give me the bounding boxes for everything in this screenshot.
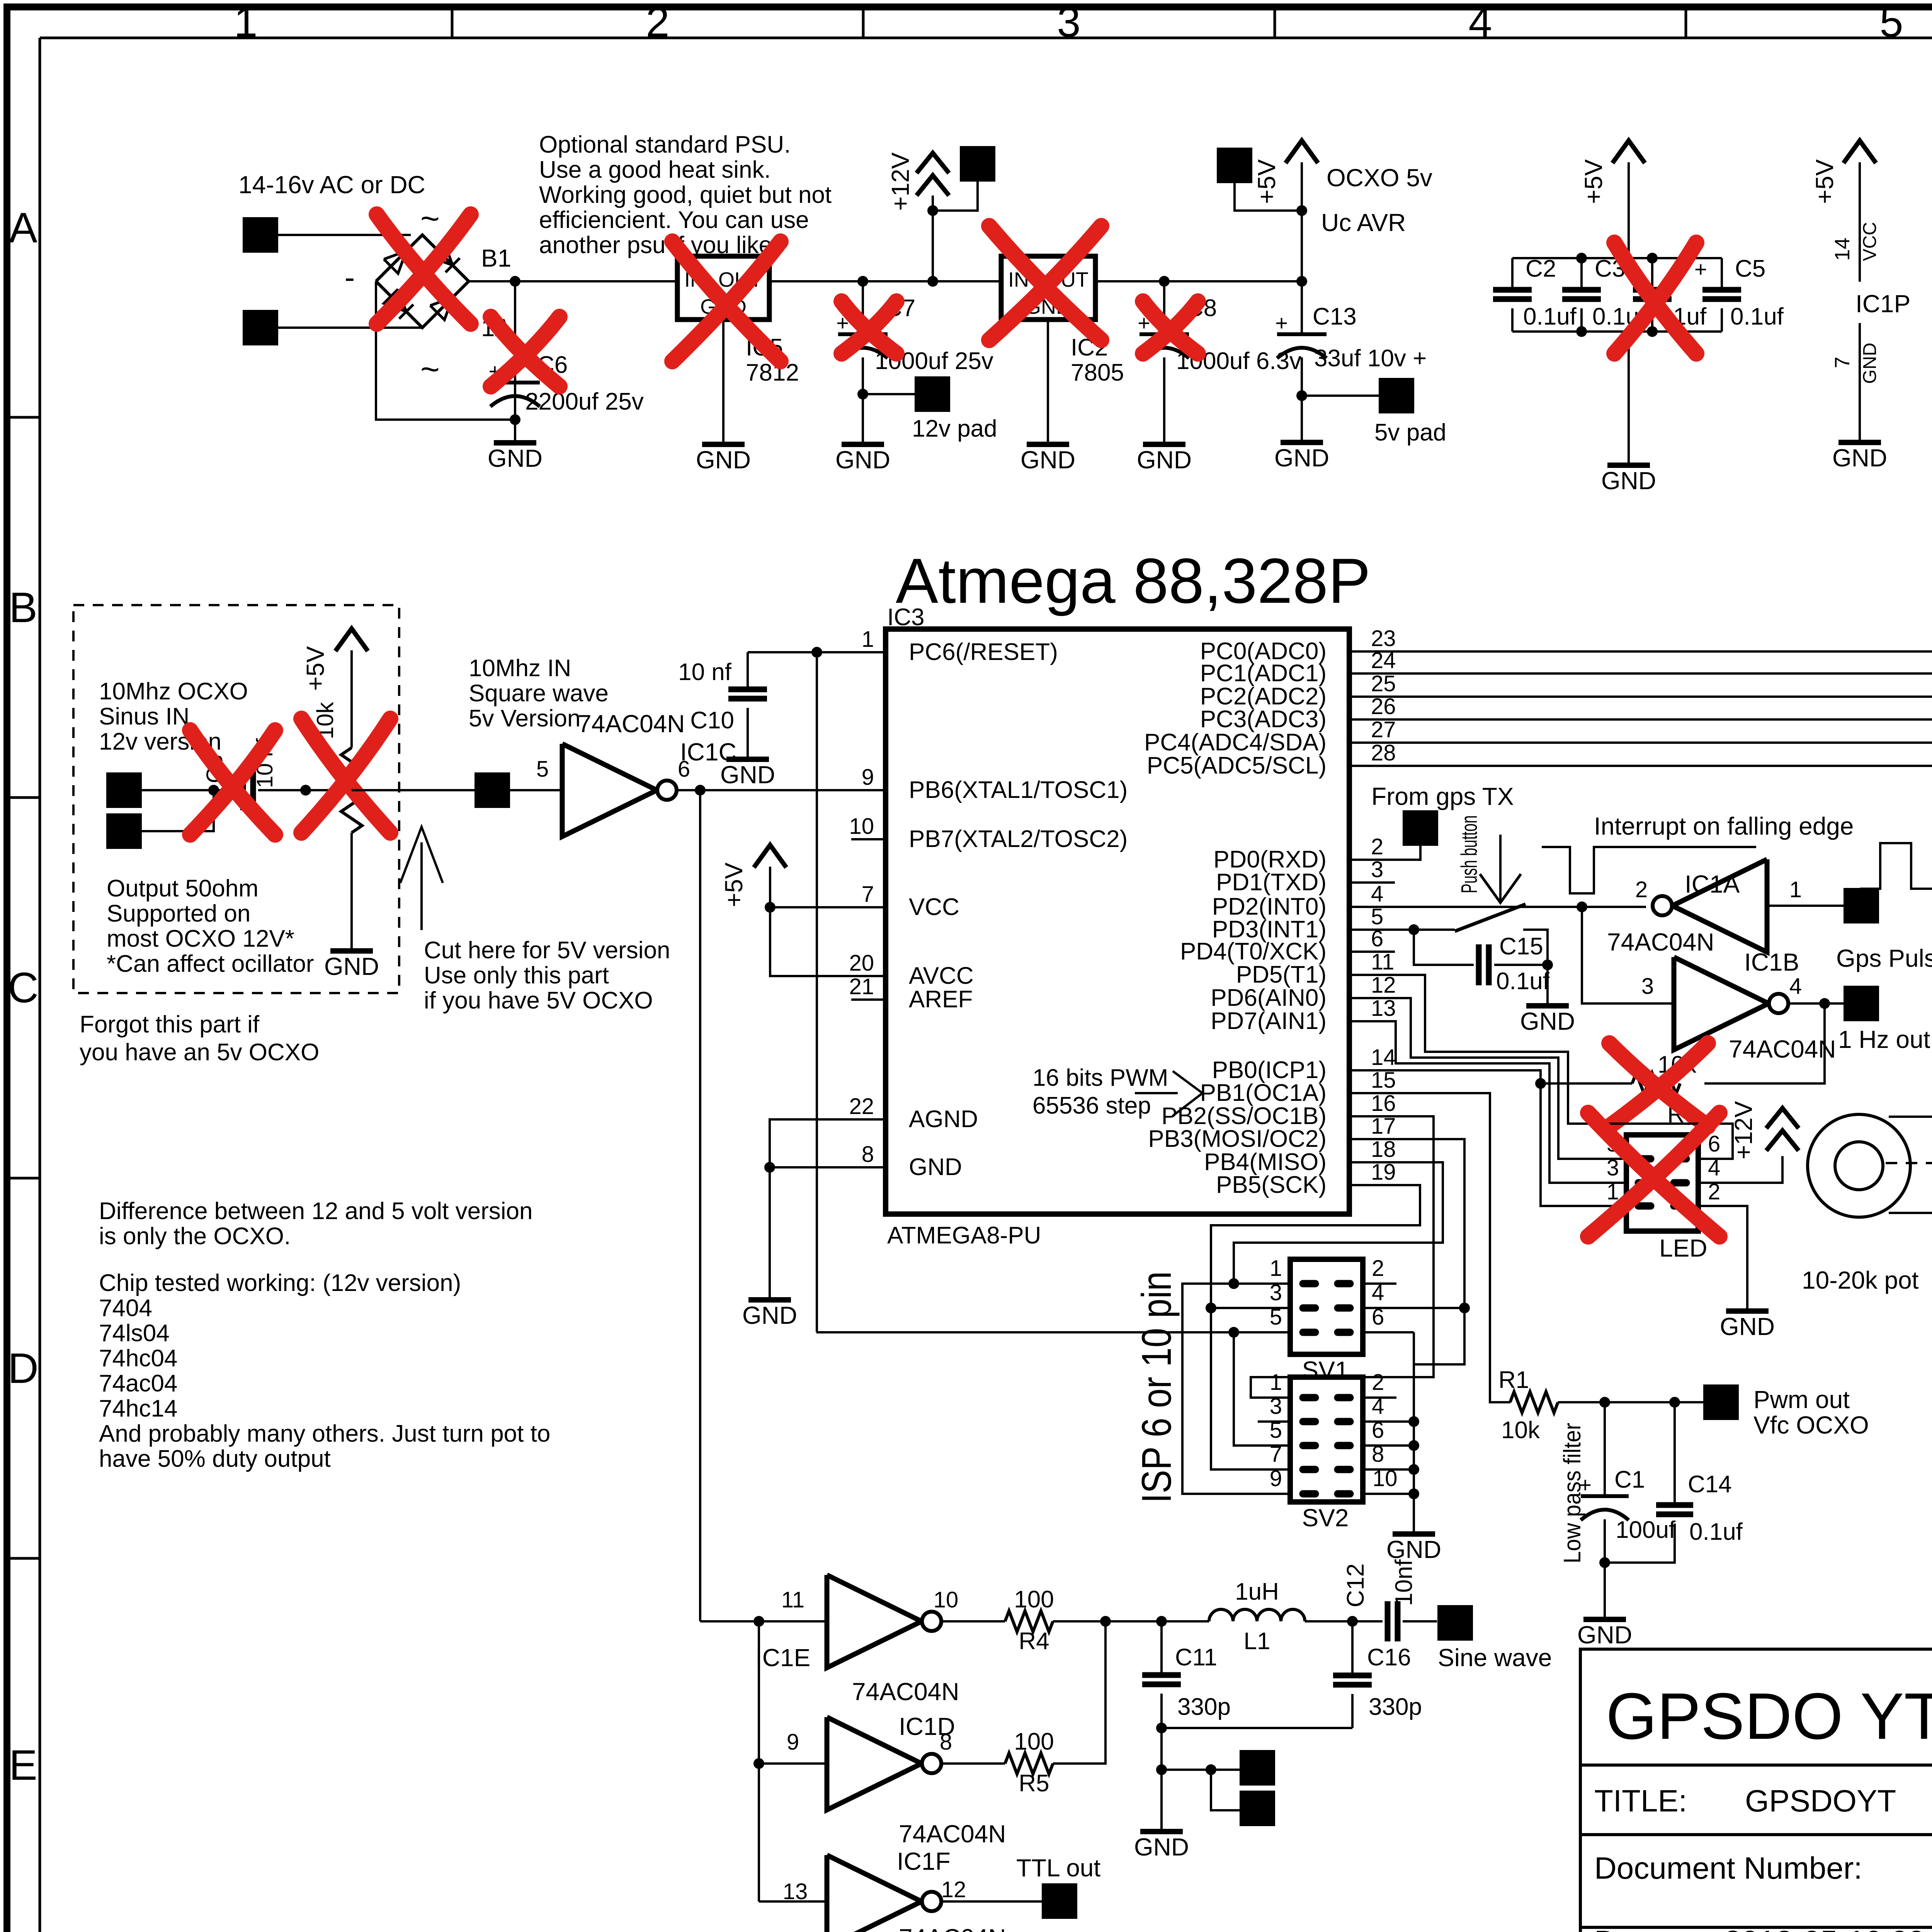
pad 5v — [1379, 378, 1414, 413]
ground C13 — [1301, 441, 1303, 444]
svg-text:74AC04N: 74AC04N — [1729, 1035, 1836, 1063]
svg-text:GND: GND — [1020, 446, 1075, 474]
wire C6 vertical — [514, 281, 516, 420]
wire pot wiper dashed — [1886, 1162, 1932, 1164]
svg-text:74AC04N: 74AC04N — [578, 710, 685, 738]
svg-text:GPSDOYT: GPSDOYT — [1745, 1784, 1896, 1818]
svg-text:4: 4 — [1708, 1155, 1720, 1180]
wire IC2 gnd — [1047, 320, 1049, 444]
wire C15 left — [1414, 930, 1474, 965]
svg-text:74ac04: 74ac04 — [99, 1370, 177, 1397]
junction pin5 C15 — [1408, 924, 1419, 935]
connector SV2 box — [1290, 1377, 1363, 1502]
inverter IC1F — [827, 1855, 922, 1932]
svg-text:Use only this part: Use only this part — [424, 962, 609, 989]
svg-text:20: 20 — [849, 951, 874, 976]
ground atmega — [769, 1299, 771, 1301]
svg-text:B: B — [9, 584, 37, 631]
svg-text:4: 4 — [1789, 974, 1802, 999]
cut here arrow — [420, 842, 423, 930]
red X over IC5 — [672, 241, 781, 361]
wire C14 bottom — [1605, 1524, 1675, 1563]
pad TTL out — [1042, 1883, 1077, 1919]
svg-text:PC5(ADC5/SCL): PC5(ADC5/SCL) — [1147, 752, 1327, 779]
svg-text:PD6(AIN0): PD6(AIN0) — [1211, 985, 1327, 1011]
wire SV2 gnd stubs — [1363, 1420, 1414, 1423]
inverter IC1E — [827, 1575, 922, 1668]
pad +5V ocxo — [1217, 148, 1252, 183]
svg-text:Date:: Date: — [1594, 1924, 1668, 1932]
resistor R4 — [1005, 1611, 1053, 1632]
svg-text:33uf 10v +: 33uf 10v + — [1314, 345, 1427, 372]
svg-text:B1: B1 — [481, 244, 511, 272]
potentiometer 10-20k — [1808, 1114, 1910, 1217]
pad from gps TX — [1403, 810, 1438, 846]
junction +5V pad branch — [1296, 205, 1307, 216]
junction SCK SV1 — [1206, 1303, 1216, 1313]
svg-text:100uf: 100uf — [1616, 1517, 1676, 1543]
title block frame — [1580, 1649, 1932, 1932]
svg-text:100: 100 — [1014, 1728, 1054, 1755]
ground decoupling — [1628, 332, 1630, 465]
supply +12V LED — [1766, 1108, 1799, 1128]
svg-text:4: 4 — [1371, 881, 1383, 906]
inductor L1 — [1209, 1609, 1305, 1621]
svg-text:have 50% duty output: have 50% duty output — [99, 1446, 331, 1472]
svg-text:25: 25 — [1371, 671, 1396, 696]
wire bottom rail to C16 — [1162, 1727, 1352, 1729]
svg-text:Use a good heat sink.: Use a good heat sink. — [539, 156, 771, 183]
svg-text:0.1uf: 0.1uf — [1730, 303, 1784, 330]
pad OCXO in 1 — [106, 772, 142, 808]
capacitor C11 — [1160, 1621, 1163, 1674]
SV1 contact bars — [1303, 1284, 1350, 1332]
svg-text:GND: GND — [1137, 446, 1192, 474]
svg-text:Push button: Push button — [1457, 815, 1482, 893]
wire pad2 to bridge — [278, 327, 421, 329]
pad Pwm out — [1703, 1384, 1739, 1420]
junction C4 top — [1647, 253, 1658, 264]
svg-text:PB5(SCK): PB5(SCK) — [1216, 1172, 1327, 1198]
capacitor C5 — [1721, 258, 1723, 289]
svg-text:27: 27 — [1371, 717, 1396, 742]
svg-text:16 bits PWM: 16 bits PWM — [1032, 1065, 1168, 1091]
wire pot top to JP3-3 — [1889, 1116, 1932, 1118]
wire IC1B input branch — [1582, 907, 1674, 1003]
svg-text:AGND: AGND — [909, 1106, 978, 1133]
junction IC1B branch — [1577, 901, 1587, 912]
svg-text:1 Hz out: 1 Hz out — [1838, 1026, 1930, 1053]
svg-text:10 nf: 10 nf — [678, 659, 732, 685]
svg-text:28: 28 — [1371, 740, 1396, 765]
wire to 5v pad — [1302, 395, 1379, 397]
junction pads split — [1206, 1764, 1216, 1775]
junction VCC — [765, 902, 776, 913]
svg-text:GND: GND — [1134, 1833, 1189, 1861]
red X over C8 10nf — [190, 730, 275, 835]
svg-text:7: 7 — [862, 882, 874, 907]
svg-text:14: 14 — [1371, 1045, 1396, 1070]
wire pin8 gnd — [770, 1166, 886, 1168]
svg-text:is only the OCXO.: is only the OCXO. — [99, 1223, 291, 1250]
wire bus down to IC1D IC1F — [758, 1621, 760, 1901]
svg-text:2: 2 — [1372, 1370, 1384, 1395]
svg-text:C: C — [8, 964, 38, 1012]
junction C8 top — [1159, 276, 1170, 287]
capacitor C6 — [490, 381, 540, 384]
wire R2 to GND — [350, 833, 353, 951]
svg-text:0.1uf: 0.1uf — [1523, 303, 1577, 330]
svg-text:3: 3 — [1641, 974, 1654, 999]
wire PC3 to LCD D7 — [1349, 512, 1932, 719]
capacitor C3 — [1580, 258, 1583, 289]
wire pin11 to LED6 — [1349, 975, 1733, 1159]
resistor R5 — [1005, 1753, 1053, 1774]
ground C11 — [1160, 1830, 1163, 1833]
junction SV2 gnd pins — [1408, 1416, 1419, 1427]
wire L1 line — [1162, 1620, 1209, 1622]
regulator IC2 7805 — [1001, 256, 1095, 320]
wire SCK to SV2 pin7 — [1211, 1308, 1290, 1469]
wire IC2 out to C13 — [1095, 280, 1302, 282]
svg-text:12v pad: 12v pad — [912, 415, 997, 442]
svg-text:10Mhz OCXO: 10Mhz OCXO — [99, 678, 248, 705]
svg-text:12: 12 — [941, 1877, 966, 1902]
ground C7 — [862, 394, 864, 444]
svg-text:11: 11 — [781, 1587, 804, 1612]
svg-text:14-16v AC or DC: 14-16v AC or DC — [238, 171, 425, 199]
wire SV1 pin2 stub — [1363, 1282, 1396, 1285]
wire C12 to sine pad — [1403, 1620, 1437, 1622]
svg-text:ATMEGA8-PU: ATMEGA8-PU — [887, 1222, 1041, 1249]
wire gnd down — [769, 1167, 771, 1300]
wire to 12v pad — [863, 393, 915, 395]
junction GND pin8 — [764, 1162, 775, 1173]
svg-text:10-20k pot: 10-20k pot — [1802, 1266, 1919, 1294]
wire IC1E out to R4 — [942, 1620, 1005, 1622]
ground C15 — [1546, 1005, 1549, 1007]
wire IC5 gnd — [722, 320, 724, 444]
svg-text:PC4(ADC4/SDA): PC4(ADC4/SDA) — [1144, 729, 1327, 756]
wire IC1F out to pad — [942, 1900, 1043, 1903]
capacitor C16 — [1333, 1673, 1372, 1679]
red X over C8 — [1143, 301, 1198, 354]
wire C10 stem — [747, 652, 749, 689]
svg-text:Difference between 12 and 5 vo: Difference between 12 and 5 volt version — [99, 1198, 532, 1225]
svg-text:1: 1 — [862, 627, 874, 652]
svg-text:~: ~ — [420, 200, 440, 237]
wire +12V arrow — [932, 196, 934, 281]
svg-text:SV1: SV1 — [1302, 1356, 1349, 1384]
svg-text:AREF: AREF — [909, 986, 973, 1013]
pad OCXO in 2 — [106, 813, 142, 849]
wire gps tx to pin2 — [1349, 846, 1420, 860]
ground IC2 — [1047, 443, 1049, 446]
svg-text:2: 2 — [1371, 834, 1383, 859]
svg-text:6: 6 — [678, 757, 690, 782]
dashed box 12v OCXO input — [73, 605, 399, 993]
svg-text:Gps Pulse: Gps Pulse — [1836, 944, 1932, 972]
svg-text:22: 22 — [849, 1094, 874, 1119]
wire R1 to pwm pad — [1558, 1401, 1703, 1403]
svg-text:Cut here for 5V version: Cut here for 5V version — [424, 937, 670, 964]
wire IC1D input — [759, 1762, 827, 1765]
svg-text:C13: C13 — [1313, 303, 1357, 330]
svg-text:PD7(AIN1): PD7(AIN1) — [1211, 1008, 1327, 1034]
junction pads branch — [1156, 1764, 1167, 1775]
junction bridge output — [510, 276, 520, 287]
wire pin1 reset — [748, 651, 886, 653]
wire pad1 to bridge — [278, 234, 411, 236]
svg-text:L1: L1 — [1244, 1628, 1270, 1655]
pin 7 GND IC1P — [1859, 323, 1861, 442]
svg-text:VCC: VCC — [1860, 222, 1880, 261]
svg-text:1: 1 — [1270, 1256, 1282, 1281]
junction C1 top — [1599, 1397, 1610, 1408]
svg-text:6: 6 — [1708, 1131, 1720, 1156]
ground C8 — [1163, 443, 1165, 446]
svg-text:12: 12 — [1371, 973, 1396, 998]
svg-text:Document Number:: Document Number: — [1594, 1851, 1862, 1885]
svg-text:100: 100 — [1014, 1586, 1054, 1613]
LED contact bars — [1638, 1159, 1686, 1206]
svg-text:10k: 10k — [1501, 1417, 1540, 1444]
svg-text:1: 1 — [1270, 1370, 1282, 1395]
ground SV2 — [1413, 1533, 1415, 1535]
junction IC1C output — [695, 785, 706, 796]
svg-text:*Can affect ocillator: *Can affect ocillator — [107, 951, 314, 977]
junction 5v pad — [1296, 390, 1307, 401]
wire VCC pin7 — [770, 906, 886, 908]
wire C8 to R2 — [258, 789, 352, 791]
supply +12V arrow — [917, 153, 949, 173]
red X over bridge B1 — [377, 214, 471, 324]
supply +5V R2 — [350, 650, 353, 748]
wire PC2 to LCD D6 — [1349, 559, 1932, 697]
svg-text:OCXO 5v: OCXO 5v — [1327, 164, 1432, 192]
svg-text:GND: GND — [1860, 343, 1880, 384]
inverter IC1A mirrored — [1672, 859, 1767, 952]
red X over LED — [1588, 1113, 1719, 1236]
push button lever — [1455, 904, 1526, 931]
svg-text:5: 5 — [1879, 0, 1903, 46]
wire PC4 to LCD E — [1349, 743, 1932, 884]
wire R5 up to R4 node — [1053, 1621, 1105, 1764]
svg-text:D: D — [8, 1345, 38, 1392]
svg-text:0.1uf: 0.1uf — [1496, 968, 1550, 995]
wire OCXO line to 5v pad — [352, 789, 474, 791]
wire OCXO pads join — [142, 790, 214, 831]
waveform falling edge — [1542, 847, 1756, 893]
svg-text:C1: C1 — [1614, 1466, 1645, 1493]
junction C11 rail — [1156, 1723, 1167, 1733]
svg-text:+: + — [1694, 257, 1707, 281]
ic ATmega IC3 box — [886, 629, 1349, 1214]
wire C15 right — [1494, 964, 1548, 966]
svg-text:GND: GND — [1274, 444, 1329, 472]
svg-text:5v Version: 5v Version — [469, 705, 581, 732]
svg-text:AVCC: AVCC — [909, 963, 974, 989]
svg-text:Interrupt on falling edge: Interrupt on falling edge — [1594, 812, 1854, 840]
svg-text:74AC04N: 74AC04N — [852, 1678, 959, 1706]
svg-text:Optional standard PSU.: Optional standard PSU. — [539, 131, 791, 158]
svg-text:8: 8 — [940, 1730, 952, 1755]
svg-text:PB6(XTAL1/TOSC1): PB6(XTAL1/TOSC1) — [909, 777, 1128, 803]
wire C1 bottom — [1604, 1519, 1606, 1563]
connector SV1 box — [1290, 1259, 1363, 1354]
wire IC1A out to pad — [1767, 905, 1844, 907]
svg-text:most OCXO 12V*: most OCXO 12V* — [107, 925, 294, 952]
pad AC input 1 — [243, 217, 278, 253]
svg-text:Sinus IN: Sinus IN — [99, 703, 189, 730]
svg-text:+5V: +5V — [720, 862, 748, 907]
svg-text:2200uf 25v: 2200uf 25v — [525, 388, 644, 415]
svg-text:C11: C11 — [1175, 1644, 1217, 1671]
svg-text:13: 13 — [783, 1879, 808, 1904]
wire SV1 pin4 stub — [1363, 1307, 1464, 1309]
supply +5V VCC — [769, 867, 771, 907]
svg-text:IC1B: IC1B — [1744, 948, 1799, 976]
svg-text:74ls04: 74ls04 — [99, 1320, 170, 1347]
red X over R3 — [1609, 1043, 1708, 1126]
wire C13 bottom — [1301, 357, 1303, 442]
red X over C7 — [842, 301, 896, 354]
svg-text:74AC04N: 74AC04N — [899, 1820, 1006, 1848]
wire bridge plus to IC5 — [469, 280, 677, 282]
svg-text:GND: GND — [1832, 444, 1887, 472]
junction C7 top — [857, 276, 868, 287]
svg-text:VCC: VCC — [909, 894, 959, 920]
junction OCXO input — [208, 785, 219, 796]
svg-text:GPSDO YT: GPSDO YT — [1606, 1680, 1932, 1753]
red X over IC2 — [989, 226, 1101, 340]
pad 12v — [915, 376, 950, 412]
svg-text:IC1A: IC1A — [1685, 870, 1740, 898]
svg-text:you have an 5v OCXO: you have an 5v OCXO — [80, 1039, 319, 1066]
svg-text:C15: C15 — [1499, 933, 1543, 960]
wire C8 stem — [1163, 281, 1165, 333]
svg-text:GND: GND — [835, 446, 890, 474]
svg-text:And probably many others. Just: And probably many others. Just turn pot … — [99, 1420, 550, 1447]
junction C11 top — [1156, 1616, 1167, 1627]
svg-text:PC6(/RESET): PC6(/RESET) — [909, 639, 1058, 665]
svg-text:+12V: +12V — [886, 152, 914, 211]
svg-text:11: 11 — [1371, 949, 1394, 975]
svg-text:+5V: +5V — [1580, 159, 1607, 204]
svg-text:PB1(OC1A): PB1(OC1A) — [1200, 1080, 1327, 1106]
wire pin15 to R1 — [1349, 1093, 1510, 1402]
svg-text:9: 9 — [1270, 1466, 1282, 1491]
svg-text:330p: 330p — [1177, 1694, 1231, 1720]
wire pin17 to SV1 pin4 chain — [1349, 1139, 1464, 1364]
pad Sine wave — [1437, 1605, 1473, 1641]
junction 12v pad — [857, 389, 868, 400]
svg-text:GND: GND — [1386, 1536, 1441, 1563]
svg-text:C16: C16 — [1367, 1644, 1411, 1671]
wire 10MHz bus down — [699, 790, 701, 1621]
svg-text:From gps TX: From gps TX — [1371, 782, 1514, 810]
svg-text:IC1E: IC1E — [755, 1644, 810, 1672]
svg-text:Forgot this part if: Forgot this part if — [80, 1011, 260, 1038]
svg-text:TTL out: TTL out — [1016, 1854, 1100, 1882]
wire C15 to gnd — [1546, 965, 1549, 1006]
svg-text:Low pass filter: Low pass filter — [1559, 1423, 1586, 1563]
wire PC0 to LCD D4 — [1349, 650, 1932, 653]
junction 1Hz R3 — [1819, 998, 1830, 1009]
svg-text:Sine wave: Sine wave — [1438, 1644, 1552, 1672]
wire IC1F input — [759, 1900, 827, 1903]
svg-text:if you have 5V OCXO: if you have 5V OCXO — [424, 987, 653, 1014]
svg-text:2: 2 — [1372, 1256, 1384, 1281]
ground lowpass — [1604, 1618, 1606, 1621]
capacitor C13 — [1301, 281, 1303, 333]
junction +12V rail — [927, 276, 938, 287]
wire IC5 out to IC2 — [769, 280, 1001, 282]
svg-text:+: + — [1275, 311, 1288, 335]
svg-text:A: A — [9, 204, 37, 252]
junction inverter bus — [753, 1616, 764, 1627]
wire 10MHz bus to IC1E — [700, 1620, 827, 1622]
svg-text:GND: GND — [742, 1301, 797, 1329]
svg-text:8: 8 — [862, 1142, 874, 1167]
wire C8 gnd — [1163, 357, 1165, 444]
bridge rectifier B1 — [376, 235, 469, 328]
junction reset SV1 — [1228, 1327, 1239, 1338]
svg-text:GND: GND — [1601, 467, 1656, 495]
svg-text:14: 14 — [1831, 238, 1854, 261]
capacitor C10 — [728, 687, 767, 692]
svg-text:Working good, quiet but not: Working good, quiet but not — [539, 182, 832, 208]
wire pin5 to switch — [1349, 929, 1455, 931]
svg-text:16: 16 — [1371, 1091, 1396, 1116]
junction C13 top — [1296, 276, 1307, 287]
svg-text:330p: 330p — [1369, 1694, 1422, 1720]
capacitor C1 — [1604, 1402, 1606, 1495]
svg-text:Uc AVR: Uc AVR — [1321, 209, 1406, 236]
ground IC5 — [722, 443, 724, 446]
capacitor C8 1000uf — [1139, 332, 1189, 336]
wire pin4 to IC1A — [1349, 906, 1582, 908]
svg-text:2: 2 — [1635, 877, 1648, 902]
svg-text:7805: 7805 — [1071, 359, 1124, 386]
pad +12V — [960, 146, 995, 182]
wire LED4 to +12V — [1698, 1156, 1782, 1183]
svg-text:GND: GND — [720, 761, 775, 789]
junction R3 pin14 net — [1535, 1078, 1546, 1089]
svg-text:C10: C10 — [690, 707, 734, 734]
pad 1 Hz out — [1844, 986, 1879, 1021]
red X over C6 — [491, 317, 560, 386]
resistor R1 — [1510, 1392, 1558, 1413]
wire L1 to C12 — [1305, 1620, 1383, 1622]
svg-text:3: 3 — [1270, 1394, 1282, 1419]
red X over C4 — [1614, 243, 1696, 354]
svg-text:1: 1 — [234, 0, 257, 46]
junction C3 bottom — [1576, 326, 1587, 337]
capacitor C4 — [1651, 258, 1653, 289]
svg-text:10: 10 — [934, 1587, 959, 1612]
svg-text:3: 3 — [1057, 0, 1080, 46]
junction MISO SV1 — [1228, 1278, 1239, 1289]
svg-text:1: 1 — [1789, 877, 1802, 902]
junction IC1D input — [753, 1758, 764, 1769]
ground C10 — [747, 758, 749, 760]
waveform gps pulse — [1860, 843, 1932, 889]
wire pin13 to LED3 — [1349, 1021, 1626, 1183]
supply +5V decoupling — [1628, 162, 1630, 258]
wire to IC1A input — [1582, 906, 1646, 908]
wire C7 stem — [862, 281, 864, 333]
